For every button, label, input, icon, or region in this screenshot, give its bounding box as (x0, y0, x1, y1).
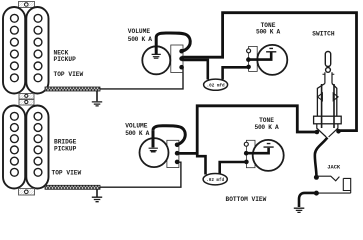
svg-text:JACK: JACK (327, 165, 341, 171)
svg-text:PICKUP: PICKUP (54, 146, 77, 153)
svg-text:TOP VIEW: TOP VIEW (52, 170, 82, 177)
svg-text:PICKUP: PICKUP (54, 56, 77, 63)
svg-text:.02 mfd: .02 mfd (207, 83, 225, 88)
svg-text:BOTTOM VIEW: BOTTOM VIEW (226, 196, 267, 203)
svg-text:.02 mfd: .02 mfd (206, 178, 224, 183)
svg-text:500 K A: 500 K A (128, 36, 152, 43)
svg-text:VOLUME: VOLUME (125, 123, 148, 130)
svg-text:TOP VIEW: TOP VIEW (54, 71, 84, 78)
svg-text:SWITCH: SWITCH (312, 31, 335, 38)
svg-text:500 K A: 500 K A (255, 124, 279, 131)
svg-text:500 K A: 500 K A (125, 130, 149, 137)
svg-text:BRIDGE: BRIDGE (54, 138, 77, 145)
svg-text:500 K A: 500 K A (256, 29, 280, 36)
svg-text:VOLUME: VOLUME (128, 28, 151, 35)
